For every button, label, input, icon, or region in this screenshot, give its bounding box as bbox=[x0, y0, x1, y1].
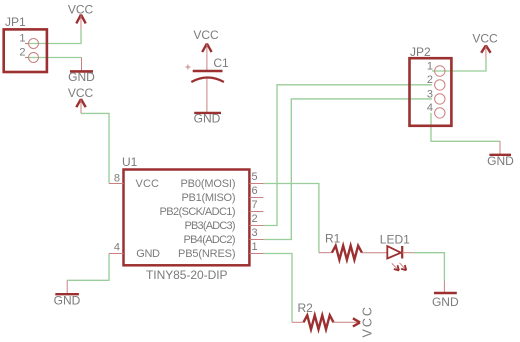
resistor R1 bbox=[319, 246, 387, 260]
wire JP2 pin1 to VCC bbox=[432, 59, 486, 72]
svg-text:JP2: JP2 bbox=[410, 45, 431, 59]
svg-text:3: 3 bbox=[427, 88, 433, 100]
resistor R2 bbox=[292, 315, 358, 329]
power VCC right of JP2 bbox=[481, 45, 490, 58]
svg-text:6: 6 bbox=[252, 185, 258, 197]
svg-text:1: 1 bbox=[19, 33, 25, 45]
LED LED1 bbox=[387, 246, 413, 271]
svg-text:R1: R1 bbox=[325, 232, 341, 246]
svg-text:8: 8 bbox=[114, 173, 120, 185]
svg-text:VCC: VCC bbox=[361, 305, 375, 337]
svg-text:PB2(SCK/ADC1): PB2(SCK/ADC1) bbox=[160, 206, 236, 218]
power VCC above JP1 bbox=[76, 15, 85, 30]
svg-text:GND: GND bbox=[136, 248, 160, 260]
svg-text:2: 2 bbox=[252, 213, 258, 225]
svg-text:LED1: LED1 bbox=[380, 233, 410, 247]
wire JP2 pin4 to GND bbox=[431, 113, 500, 141]
svg-text:4: 4 bbox=[427, 102, 433, 114]
svg-text:PB5(NRES): PB5(NRES) bbox=[178, 248, 236, 260]
ground GND below C1 bbox=[194, 112, 221, 114]
svg-text:VCC: VCC bbox=[68, 86, 94, 100]
ground GND below JP2 bbox=[489, 141, 511, 155]
wire U1 pin5 PB0(MOSI) to R1 bbox=[263, 184, 319, 253]
ground GND below LED1 bbox=[434, 281, 457, 293]
svg-text:5: 5 bbox=[252, 171, 258, 183]
svg-text:U1: U1 bbox=[122, 155, 138, 169]
wire U1 pin4 to GND bbox=[67, 254, 109, 281]
capacitor C1 bbox=[185, 44, 224, 113]
svg-text:VCC: VCC bbox=[472, 32, 498, 46]
wire U1 pin2 PB2 to JP2 pin2 bbox=[263, 85, 432, 226]
svg-text:GND: GND bbox=[68, 70, 95, 84]
IC U1 TINY85-20-DIP bbox=[109, 170, 263, 266]
svg-text:PB3(ADC3): PB3(ADC3) bbox=[185, 220, 236, 232]
svg-text:GND: GND bbox=[194, 112, 221, 126]
node VCC net wire JP1 pin1 bbox=[25, 29, 81, 43]
svg-text:JP1: JP1 bbox=[5, 15, 26, 29]
svg-text:R2: R2 bbox=[298, 301, 314, 315]
svg-text:7: 7 bbox=[252, 199, 258, 211]
wire LED1 cathode to GND bbox=[413, 253, 444, 281]
wire VCC to U1 pin8 bbox=[81, 113, 109, 183]
svg-text:4: 4 bbox=[114, 242, 120, 254]
svg-text:3: 3 bbox=[252, 227, 258, 239]
svg-text:GND: GND bbox=[54, 294, 81, 308]
svg-text:GND: GND bbox=[432, 295, 459, 309]
wire U1 pin1 PB5 to R2 bbox=[263, 254, 292, 323]
svg-text:VCC: VCC bbox=[193, 28, 219, 42]
node GND net wire JP1 pin2 bbox=[25, 57, 82, 59]
svg-text:1: 1 bbox=[427, 60, 433, 72]
svg-text:2: 2 bbox=[19, 47, 25, 59]
power VCC right of R2 bbox=[353, 318, 360, 326]
svg-text:VCC: VCC bbox=[136, 178, 160, 190]
connector JP1 bbox=[4, 29, 47, 72]
wire U1 pin3 PB3 to JP2 pin3 bbox=[263, 99, 432, 240]
svg-text:PB4(ADC2): PB4(ADC2) bbox=[184, 234, 236, 246]
power VCC above U1 bbox=[76, 99, 85, 113]
svg-text:GND: GND bbox=[487, 154, 514, 168]
connector JP2 bbox=[410, 58, 452, 126]
ground GND below U1 pin4 bbox=[55, 280, 79, 294]
svg-text:C1: C1 bbox=[213, 56, 229, 70]
svg-text:TINY85-20-DIP: TINY85-20-DIP bbox=[146, 268, 228, 282]
svg-text:2: 2 bbox=[427, 74, 433, 86]
ground GND below JP1 pin2 bbox=[70, 58, 93, 72]
svg-text:PB0(MOSI): PB0(MOSI) bbox=[181, 178, 236, 190]
svg-text:1: 1 bbox=[252, 241, 258, 253]
svg-text:VCC: VCC bbox=[68, 3, 94, 17]
svg-text:PB1(MISO): PB1(MISO) bbox=[182, 192, 236, 204]
